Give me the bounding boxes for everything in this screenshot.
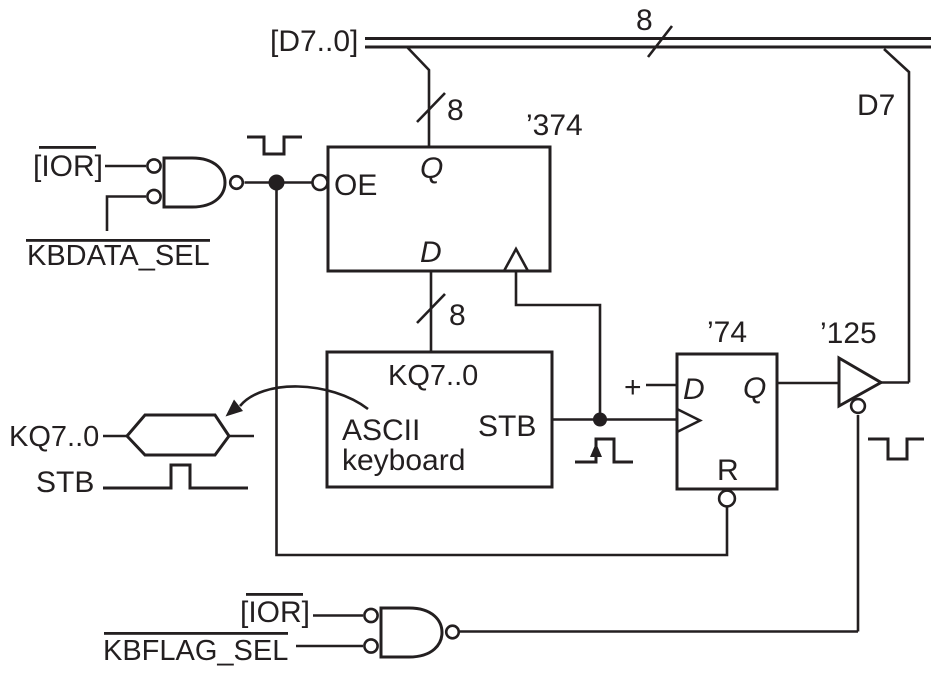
U2 input bubble 1 xyxy=(147,159,160,172)
wire [IOR] to U2 input 1 xyxy=(105,165,146,168)
wire U4 output to D7 xyxy=(881,381,909,384)
label [IOR] with overline xyxy=(33,146,103,183)
svg-text:[D7..0]: [D7..0] xyxy=(270,25,358,58)
register U1 '374 box xyxy=(328,147,550,271)
svg-text:R: R xyxy=(717,454,739,487)
svg-text:’125: ’125 xyxy=(820,317,877,350)
wire from hexagon right xyxy=(229,435,254,438)
wire to hexagon left xyxy=(103,435,127,438)
NAND gate U5 (bottom) body xyxy=(381,608,442,657)
label KBDATA_SEL with overline xyxy=(26,239,210,272)
U3 clock triangle xyxy=(677,409,700,432)
svg-text:’374: ’374 xyxy=(526,109,583,142)
junction node A xyxy=(269,175,285,191)
svg-text:KQ7..0: KQ7..0 xyxy=(9,421,99,453)
svg-text:D: D xyxy=(420,236,442,269)
annotation curved arrow xyxy=(226,386,369,416)
bus [D7..0] double line xyxy=(365,39,931,48)
U5 input bubble 2 xyxy=(364,639,377,652)
junction node B xyxy=(593,413,607,427)
svg-text:Q: Q xyxy=(743,372,766,405)
label KBFLAG_SEL with overline xyxy=(103,632,288,667)
ASCII keyboard block xyxy=(327,352,552,487)
timing STB pulse xyxy=(103,465,248,488)
slash 8 on Q bus xyxy=(417,93,464,127)
R inversion bubble xyxy=(719,491,735,507)
svg-text:KBDATA_SEL: KBDATA_SEL xyxy=(27,240,210,272)
slash 8 on D bus xyxy=(417,294,466,332)
wire node B up to '374 clock xyxy=(516,271,600,420)
U4 enable bubble xyxy=(851,399,865,413)
U2 output bubble xyxy=(230,176,243,189)
svg-text:STB: STB xyxy=(478,410,536,443)
timing hexagon (bus valid) xyxy=(127,415,229,455)
wire '374 D to keyboard xyxy=(430,271,433,352)
OE inversion bubble xyxy=(313,175,328,190)
svg-text:’74: ’74 xyxy=(707,316,747,349)
svg-text:OE: OE xyxy=(334,169,377,202)
wire Q to '125 xyxy=(777,382,839,385)
svg-text:ASCII: ASCII xyxy=(342,414,420,447)
svg-text:KQ7..0: KQ7..0 xyxy=(388,360,478,392)
wire U2 output to OE xyxy=(245,181,313,184)
U5 input bubble 1 xyxy=(364,609,377,622)
label [IOR] with overline (bottom) xyxy=(240,593,310,629)
U2 input bubble 2 xyxy=(147,190,160,203)
waveform negative pulse (enable) xyxy=(868,439,924,459)
buffer U4 '125 triangle xyxy=(839,358,881,406)
svg-text:8: 8 xyxy=(636,4,653,37)
'374 clock caret xyxy=(504,249,528,271)
wire STB to '74 clock xyxy=(552,418,677,421)
svg-text:STB: STB xyxy=(36,466,94,499)
flip-flop U3 '74 box xyxy=(677,354,777,489)
svg-text:[IOR]: [IOR] xyxy=(240,596,310,629)
NAND gate U2 (top) body xyxy=(164,158,225,207)
wire KBDATA_SEL to U2 input 2 xyxy=(107,197,146,232)
wire U4 enable down xyxy=(857,415,860,632)
bus width slash 8 (top) xyxy=(636,4,672,57)
svg-text:8: 8 xyxy=(447,94,464,127)
wire bus branch to D7 xyxy=(884,49,909,383)
svg-text:Q: Q xyxy=(420,152,443,185)
waveform positive pulse (STB) with arrow xyxy=(575,439,633,462)
waveform negative pulse (OE) xyxy=(247,137,302,154)
svg-text:+: + xyxy=(624,371,642,404)
svg-text:D7: D7 xyxy=(857,89,895,122)
wire U5 output to U4 enable xyxy=(460,630,858,633)
wire + to D input xyxy=(646,384,677,387)
svg-text:[IOR]: [IOR] xyxy=(33,150,103,183)
svg-text:keyboard: keyboard xyxy=(342,444,465,477)
svg-text:8: 8 xyxy=(449,299,466,332)
wire KBFLAG_SEL to U5 input 2 xyxy=(296,645,363,648)
wire node A down to R net xyxy=(277,190,728,555)
wire [IOR] to U5 input 1 xyxy=(313,614,363,617)
svg-text:D: D xyxy=(683,373,705,406)
U5 output bubble xyxy=(446,626,459,639)
svg-text:KBFLAG_SEL: KBFLAG_SEL xyxy=(103,635,288,667)
wire bus branch to '374 Q xyxy=(407,47,429,148)
